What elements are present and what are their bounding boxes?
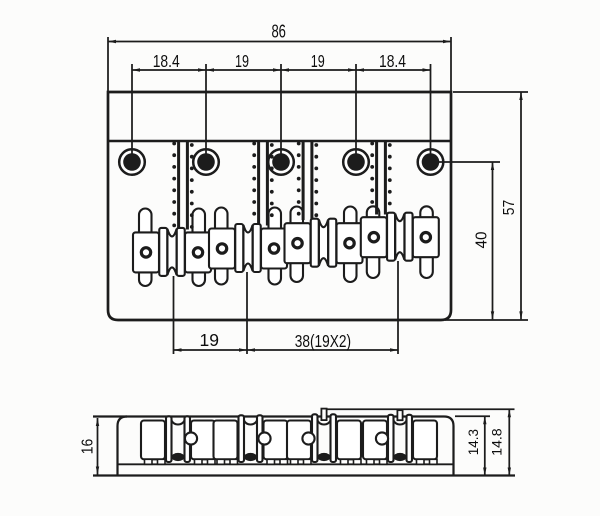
saddle 2 roller neck	[243, 225, 252, 271]
side saddle 3 blocks	[287, 421, 311, 460]
saddle 3 plate slots	[291, 207, 304, 230]
side saddle 1 feet	[145, 459, 153, 464]
side saddle 4 roller arc	[394, 421, 407, 425]
side saddle 3 roller arc	[318, 421, 331, 425]
side saddle 2 string hole	[244, 453, 257, 461]
saddle 3 roller flanges	[311, 219, 319, 267]
side saddle 3 feet	[291, 459, 299, 464]
svg-text:18.4: 18.4	[153, 51, 180, 71]
dimension 57 (right, overall depth)	[453, 91, 528, 93]
saddle 1 roller neck	[167, 229, 176, 275]
side saddle 4 feet	[367, 459, 375, 464]
side saddle 2 roller arc	[244, 421, 257, 425]
saddle 2 blocks	[209, 229, 235, 269]
saddle 1 screw holes	[141, 248, 150, 257]
svg-text:14.3: 14.3	[466, 429, 481, 455]
dimension 16 (side height)	[97, 418, 99, 475]
saddle 4 screw holes	[369, 233, 378, 242]
svg-text:14.8: 14.8	[489, 428, 504, 456]
dimension 19 / 38(19X2) (string spacing)	[173, 276, 175, 354]
side saddle 4 roller bars	[388, 415, 394, 462]
intonation screw channel 3	[302, 141, 305, 220]
side saddle 4 string hole	[394, 453, 407, 461]
side view base plate top line	[118, 463, 454, 465]
mounting hole 4	[343, 149, 369, 175]
mounting hole 1	[119, 149, 145, 175]
dimension 86 (overall width)	[107, 37, 109, 92]
saddle 1 roller flanges	[159, 228, 167, 276]
side saddle 4 height screw post	[397, 410, 402, 420]
dimension 14.3	[455, 415, 490, 417]
saddle 3 screw holes	[293, 239, 302, 248]
mounting hole 3	[268, 149, 294, 175]
side saddle 4 blocks	[363, 421, 387, 460]
svg-text:86: 86	[271, 22, 286, 42]
dimension 40 (hole row to back edge)	[438, 161, 500, 163]
saddle 3 roller neck	[319, 220, 328, 266]
side saddle 2 roller bars	[239, 415, 245, 462]
saddle 4 plate slots	[367, 206, 380, 223]
side view outline	[93, 417, 454, 476]
intonation screw channel 2	[257, 141, 260, 226]
saddle 3 blocks	[285, 223, 311, 263]
bridge base plate (top view)	[108, 92, 451, 320]
side saddle 2 screw head	[258, 432, 270, 444]
mounting hole 5	[418, 149, 444, 175]
saddle 4 roller neck	[395, 214, 404, 260]
side saddle 1 roller bars	[166, 416, 172, 462]
svg-text:19: 19	[311, 51, 325, 71]
svg-text:38(19X2): 38(19X2)	[295, 331, 351, 351]
side saddle 3 height screw post	[321, 409, 326, 421]
saddle 1 plate slots	[139, 209, 152, 239]
intonation screw channel 4	[375, 141, 378, 215]
svg-text:16: 16	[79, 439, 96, 455]
side saddle 4 screw head	[376, 432, 388, 444]
svg-text:19: 19	[200, 330, 220, 350]
dimensions 18.4 / 19 / 19 / 18.4 (hole spacing)	[131, 64, 133, 162]
intonation screw channel 1	[177, 141, 180, 230]
side saddle 1 roller arc	[172, 421, 185, 425]
side saddle 3 roller bars	[312, 414, 318, 462]
saddle 1 blocks	[133, 232, 159, 272]
saddle 2 plate slots	[215, 208, 228, 235]
side saddle 1 screw head	[185, 432, 197, 444]
saddle 4 blocks	[361, 217, 387, 257]
svg-text:57: 57	[501, 200, 518, 216]
saddle 2 roller flanges	[235, 224, 243, 272]
side view bottom edge / extension	[93, 474, 515, 476]
svg-text:18.4: 18.4	[379, 51, 406, 71]
side saddle 3 screw head	[302, 432, 314, 444]
side saddle 1 blocks	[141, 421, 165, 460]
plate step line	[108, 140, 451, 143]
svg-text:40: 40	[474, 231, 491, 248]
saddle 2 screw holes	[217, 244, 226, 253]
dimension 14.8	[327, 408, 515, 410]
mounting hole 2	[193, 149, 219, 175]
svg-text:19: 19	[235, 51, 249, 71]
side saddle 2 feet	[217, 459, 225, 464]
side saddle 1 string hole	[172, 453, 185, 461]
side saddle 2 blocks	[214, 421, 238, 460]
saddle 4 roller flanges	[387, 213, 395, 261]
side saddle 3 string hole	[318, 453, 331, 461]
